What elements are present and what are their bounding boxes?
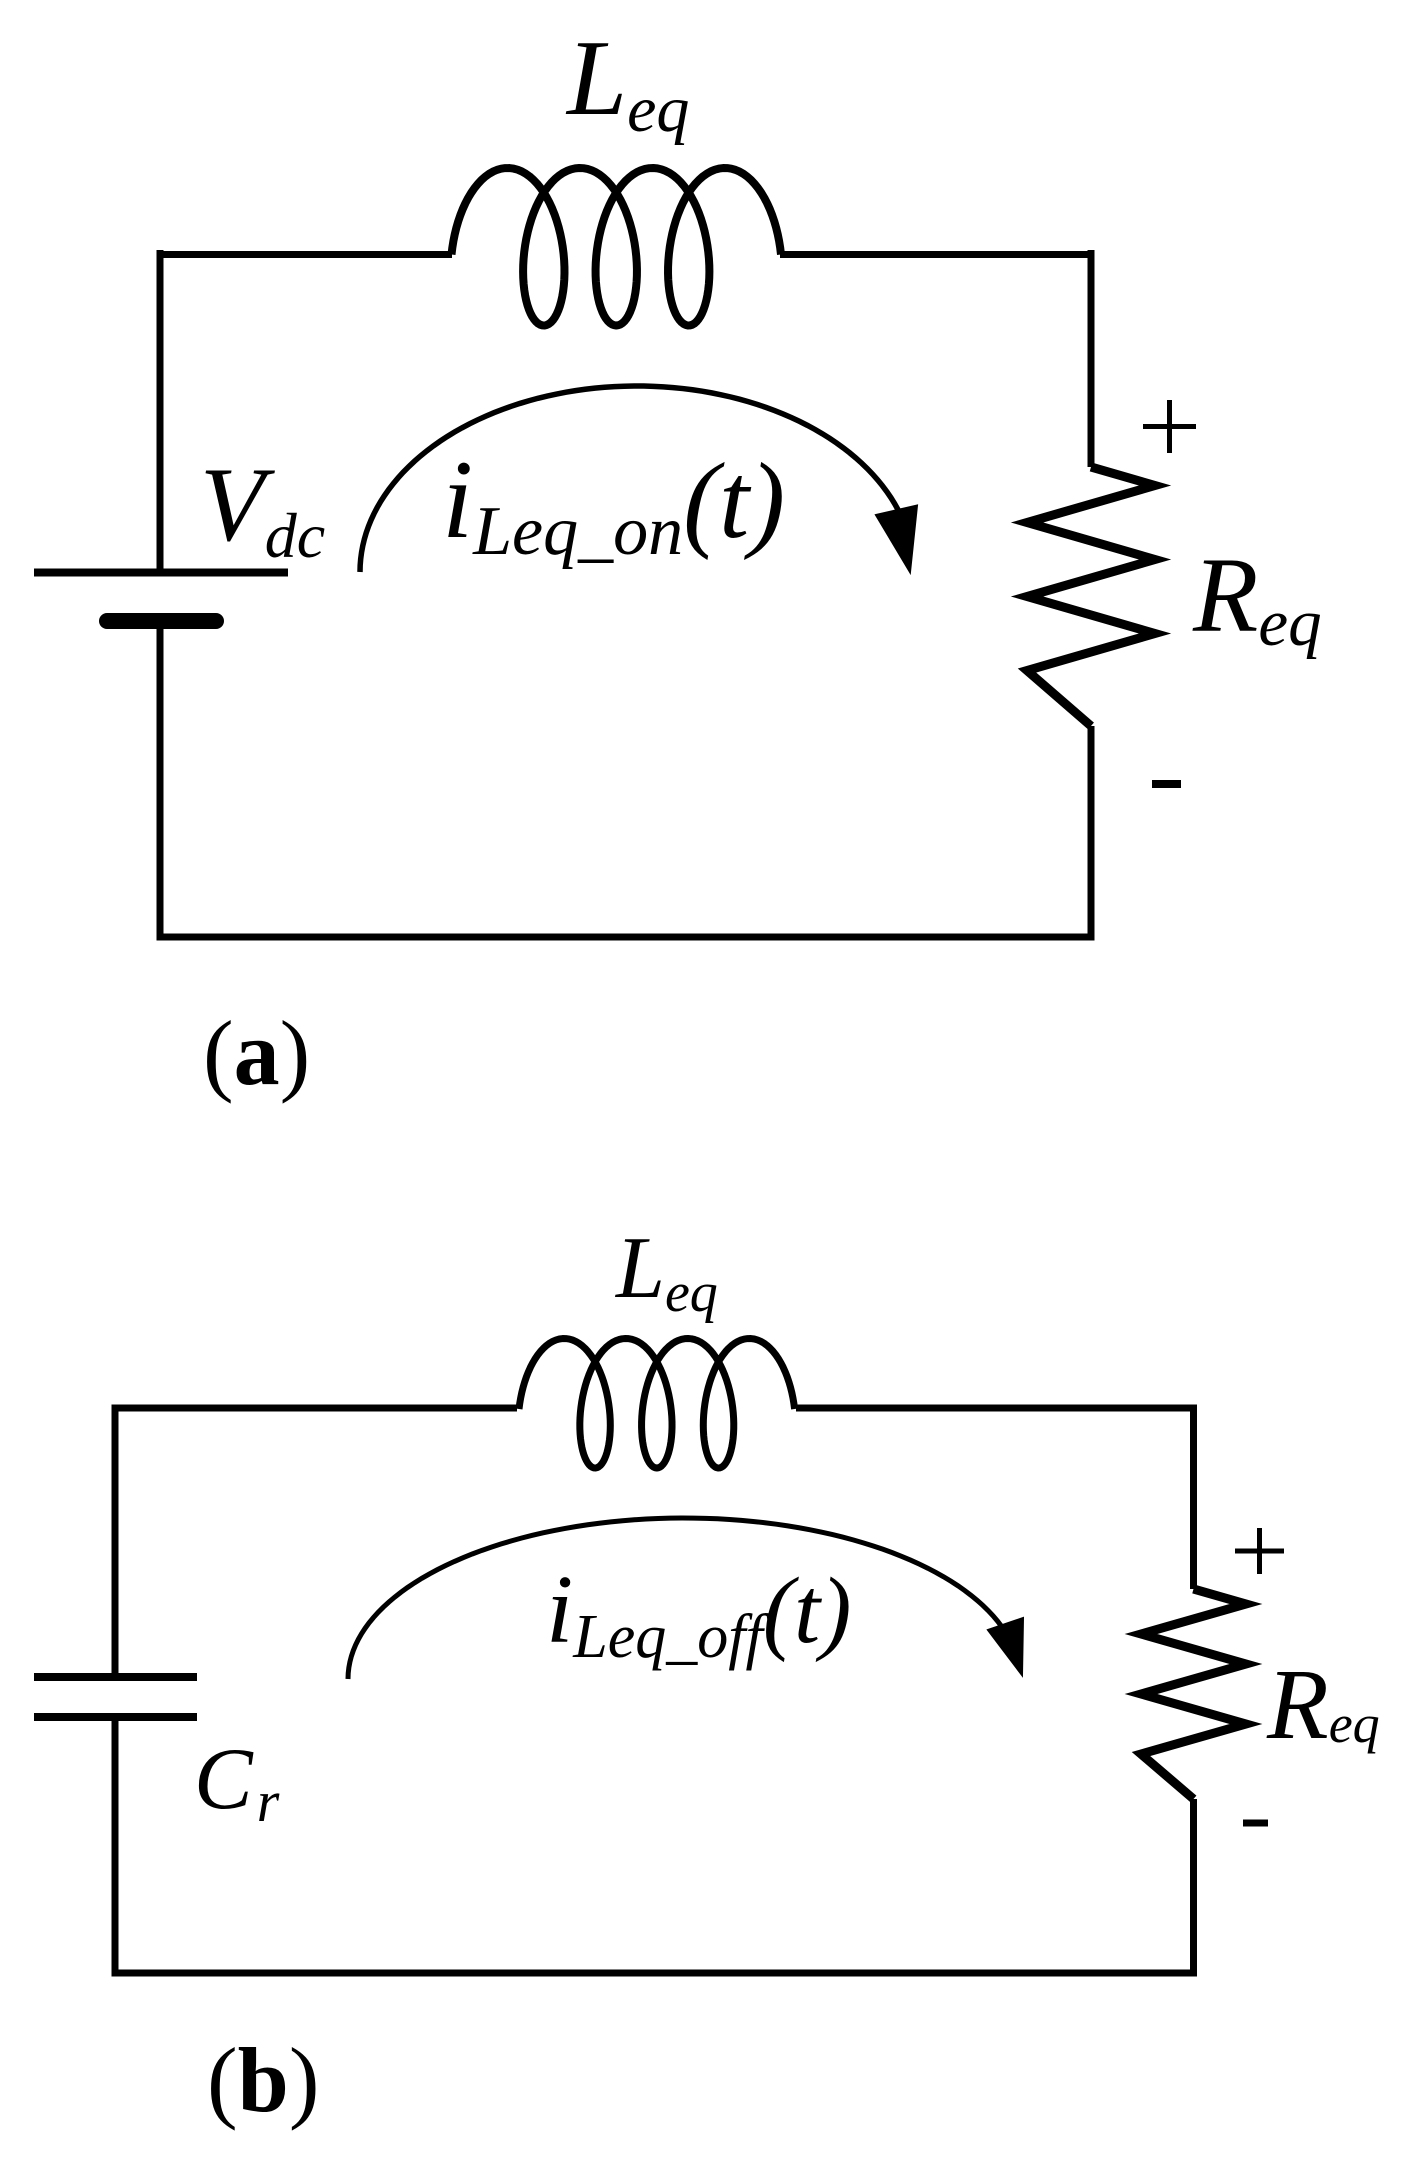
wire left upper (b)	[112, 1405, 119, 1678]
wire left lower (b)	[112, 1717, 119, 1977]
wire top-right (b)	[796, 1405, 1197, 1412]
resistor Req (b)	[1141, 1589, 1246, 1799]
plus sign (a)	[1143, 400, 1196, 453]
wire top-left (a)	[157, 251, 453, 258]
capacitor Cr plate top (b)	[34, 1673, 197, 1681]
wire right upper (b)	[1190, 1405, 1197, 1590]
arrowhead (b)	[988, 1618, 1023, 1675]
battery Vdc plate short (a)	[107, 613, 216, 629]
wire left upper (a)	[157, 250, 164, 572]
wire left lower (a)	[157, 629, 164, 941]
wire top-left (b)	[112, 1405, 518, 1412]
capacitor Cr plate bottom (b)	[34, 1713, 197, 1721]
minus sign (a)	[1152, 780, 1181, 788]
wire right lower (b)	[112, 1799, 1198, 1977]
current loop arrow arc (a)	[360, 386, 901, 572]
wire top-right (a)	[780, 251, 1095, 258]
inductor Leq (a)	[452, 168, 782, 325]
wire right lower (a)	[157, 726, 1095, 941]
svg-text:(a): (a)	[203, 1002, 310, 1104]
plus sign (b)	[1235, 1528, 1284, 1574]
inductor Leq (b)	[519, 1339, 795, 1468]
current loop arrow arc (b)	[348, 1518, 1005, 1679]
wire right upper (a)	[1088, 250, 1095, 467]
battery Vdc plate long (a)	[34, 569, 288, 577]
svg-text:(b): (b)	[207, 2029, 319, 2131]
arrowhead (a)	[876, 506, 917, 573]
resistor Req (a)	[1027, 467, 1155, 726]
minus sign (b)	[1243, 1820, 1268, 1827]
